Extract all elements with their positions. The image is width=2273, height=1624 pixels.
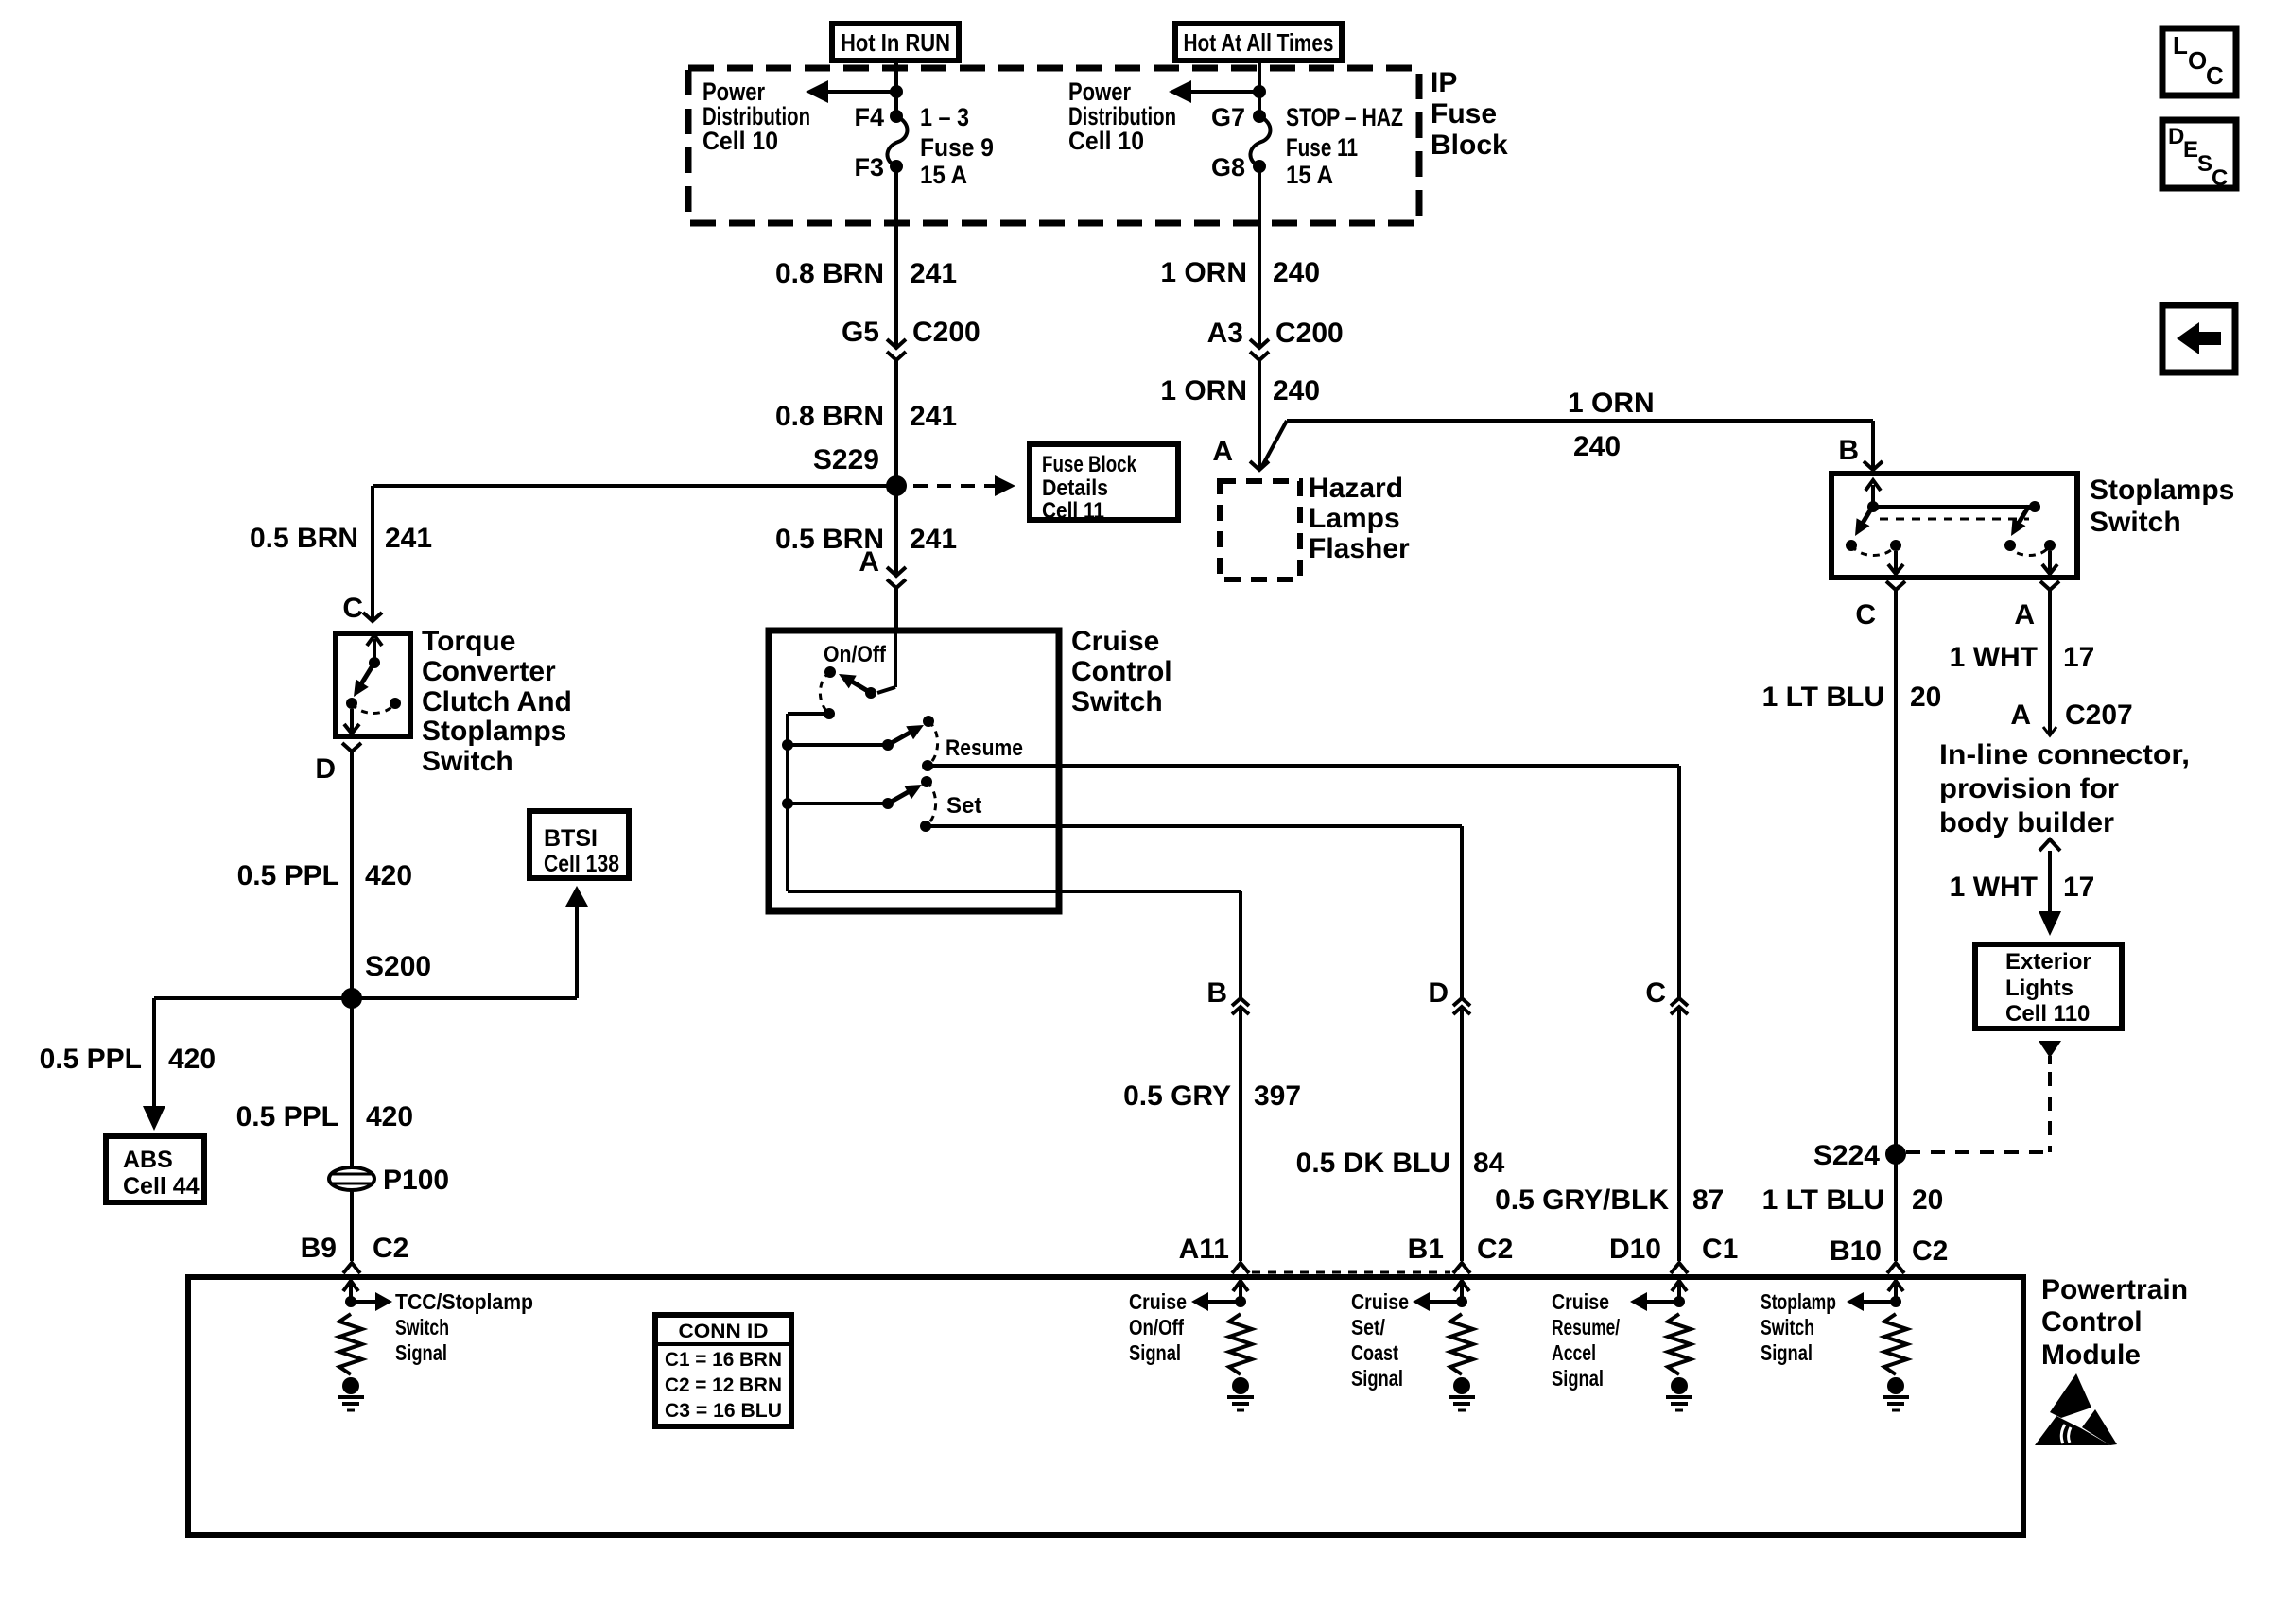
svg-text:C2 = 12 BRN: C2 = 12 BRN: [665, 1374, 782, 1396]
svg-text:Torque: Torque: [422, 626, 515, 657]
svg-text:D: D: [315, 753, 336, 785]
svg-text:C: C: [2206, 61, 2224, 90]
svg-text:Signal: Signal: [1552, 1366, 1604, 1391]
svg-text:S224: S224: [1813, 1140, 1880, 1171]
svg-text:Block: Block: [1431, 130, 1508, 161]
svg-text:241: 241: [910, 258, 957, 289]
svg-text:G5: G5: [842, 317, 879, 348]
svg-text:Signal: Signal: [1129, 1340, 1181, 1365]
svg-text:body builder: body builder: [1939, 807, 2114, 838]
svg-text:C207: C207: [2065, 700, 2133, 731]
svg-text:IP: IP: [1431, 67, 1457, 98]
svg-text:Cell 44: Cell 44: [123, 1173, 200, 1200]
svg-text:Cruise: Cruise: [1351, 1289, 1409, 1314]
svg-text:Exterior: Exterior: [2005, 949, 2091, 975]
svg-text:Switch: Switch: [395, 1315, 449, 1339]
svg-text:D: D: [1428, 977, 1449, 1009]
svg-text:1 ORN: 1 ORN: [1568, 388, 1655, 419]
svg-text:Module: Module: [2041, 1339, 2141, 1371]
svg-text:Lights: Lights: [2005, 976, 2073, 1001]
svg-text:E: E: [2183, 137, 2198, 163]
svg-text:BTSI: BTSI: [544, 825, 598, 852]
svg-text:Converter: Converter: [422, 656, 556, 687]
svg-text:Cell 138: Cell 138: [544, 851, 619, 877]
svg-text:20: 20: [1910, 682, 1941, 713]
svg-text:240: 240: [1573, 431, 1621, 462]
svg-text:Control: Control: [2041, 1306, 2143, 1338]
svg-text:0.5 GRY: 0.5 GRY: [1123, 1080, 1231, 1112]
svg-text:420: 420: [365, 860, 412, 891]
svg-text:C200: C200: [1275, 318, 1344, 349]
svg-text:Resume/: Resume/: [1552, 1315, 1620, 1339]
svg-text:Details: Details: [1042, 475, 1108, 501]
svg-text:1 WHT: 1 WHT: [1950, 642, 2038, 673]
svg-text:Signal: Signal: [1761, 1340, 1813, 1365]
svg-text:B1: B1: [1408, 1234, 1444, 1265]
svg-text:15 A: 15 A: [920, 161, 967, 189]
svg-text:STOP – HAZ: STOP – HAZ: [1286, 103, 1403, 131]
svg-text:17: 17: [2063, 642, 2094, 673]
svg-text:Switch: Switch: [1761, 1315, 1814, 1339]
svg-text:Cell 11: Cell 11: [1042, 498, 1104, 524]
svg-text:A3: A3: [1207, 318, 1243, 349]
svg-text:TCC/Stoplamp: TCC/Stoplamp: [395, 1289, 533, 1314]
svg-text:Stoplamp: Stoplamp: [1761, 1289, 1836, 1314]
svg-text:Stoplamps: Stoplamps: [2090, 475, 2234, 506]
svg-text:S229: S229: [813, 444, 879, 475]
svg-text:17: 17: [2063, 872, 2094, 903]
svg-text:On/Off: On/Off: [1129, 1315, 1184, 1339]
svg-text:On/Off: On/Off: [824, 642, 887, 667]
svg-text:Hot In RUN: Hot In RUN: [841, 28, 950, 57]
svg-text:C200: C200: [912, 317, 980, 348]
svg-text:O: O: [2188, 46, 2207, 75]
svg-text:L: L: [2173, 31, 2188, 60]
svg-text:B: B: [1206, 977, 1227, 1009]
svg-text:G7: G7: [1211, 103, 1245, 131]
svg-text:Fuse Block: Fuse Block: [1042, 452, 1137, 477]
svg-text:1 WHT: 1 WHT: [1950, 872, 2038, 903]
svg-text:Signal: Signal: [1351, 1366, 1403, 1391]
svg-text:Switch: Switch: [422, 746, 513, 777]
svg-text:Cruise: Cruise: [1071, 626, 1159, 657]
svg-text:15 A: 15 A: [1286, 161, 1333, 189]
svg-text:D: D: [2168, 124, 2184, 149]
svg-text:240: 240: [1273, 375, 1320, 406]
svg-text:241: 241: [385, 523, 432, 554]
svg-text:Resume: Resume: [946, 735, 1023, 761]
svg-text:84: 84: [1473, 1148, 1505, 1179]
svg-text:1 ORN: 1 ORN: [1160, 375, 1247, 406]
svg-text:P100: P100: [383, 1165, 449, 1196]
svg-text:Cell 10: Cell 10: [1068, 127, 1144, 155]
svg-text:C: C: [342, 593, 363, 624]
svg-text:0.8 BRN: 0.8 BRN: [775, 401, 884, 432]
svg-text:1 LT BLU: 1 LT BLU: [1762, 682, 1884, 713]
svg-text:Cruise: Cruise: [1129, 1289, 1187, 1314]
svg-text:C2: C2: [1912, 1235, 1948, 1267]
svg-text:0.8 BRN: 0.8 BRN: [775, 258, 884, 289]
svg-text:C3 = 16 BLU: C3 = 16 BLU: [665, 1400, 782, 1422]
svg-text:Control: Control: [1071, 656, 1172, 687]
svg-text:Set/: Set/: [1351, 1315, 1386, 1339]
svg-text:Fuse: Fuse: [1431, 98, 1497, 130]
svg-text:240: 240: [1273, 257, 1320, 288]
svg-text:Switch: Switch: [1071, 686, 1163, 717]
svg-text:Lamps: Lamps: [1309, 503, 1400, 534]
svg-text:1 – 3: 1 – 3: [920, 103, 969, 131]
svg-text:1 LT BLU: 1 LT BLU: [1762, 1184, 1884, 1216]
svg-text:Fuse 11: Fuse 11: [1286, 133, 1358, 162]
svg-text:A: A: [859, 546, 879, 578]
svg-text:0.5 PPL: 0.5 PPL: [237, 860, 339, 891]
svg-text:0.5 PPL: 0.5 PPL: [40, 1044, 142, 1075]
svg-text:87: 87: [1692, 1184, 1724, 1216]
svg-text:C: C: [1855, 599, 1876, 631]
svg-text:A11: A11: [1179, 1234, 1229, 1265]
svg-text:Signal: Signal: [395, 1340, 447, 1365]
svg-text:D10: D10: [1609, 1234, 1661, 1265]
svg-text:Accel: Accel: [1552, 1340, 1596, 1365]
svg-text:Set: Set: [946, 793, 981, 819]
svg-text:G8: G8: [1211, 153, 1245, 181]
svg-text:A: A: [2014, 599, 2035, 631]
svg-text:Cell 110: Cell 110: [2005, 1001, 2090, 1027]
svg-text:A: A: [1212, 436, 1233, 467]
svg-text:Cruise: Cruise: [1552, 1289, 1609, 1314]
svg-text:provision for: provision for: [1939, 773, 2119, 804]
svg-text:420: 420: [168, 1044, 216, 1075]
svg-text:C1: C1: [1702, 1234, 1738, 1265]
svg-text:Coast: Coast: [1351, 1340, 1398, 1365]
svg-text:Stoplamps: Stoplamps: [422, 716, 566, 747]
svg-text:C: C: [1645, 977, 1666, 1009]
svg-text:Powertrain: Powertrain: [2041, 1274, 2188, 1305]
svg-text:Flasher: Flasher: [1309, 533, 1410, 564]
svg-text:0.5 PPL: 0.5 PPL: [236, 1101, 338, 1132]
svg-text:Cell 10: Cell 10: [703, 127, 778, 155]
svg-text:Hazard: Hazard: [1309, 473, 1403, 504]
svg-text:S: S: [2197, 151, 2212, 177]
svg-text:F4: F4: [854, 103, 884, 131]
svg-text:In-line connector,: In-line connector,: [1939, 739, 2190, 770]
svg-text:C1 = 16 BRN: C1 = 16 BRN: [665, 1349, 782, 1371]
svg-text:20: 20: [1912, 1184, 1943, 1216]
svg-text:C2: C2: [1477, 1234, 1513, 1265]
svg-text:Hot At All Times: Hot At All Times: [1184, 28, 1334, 57]
svg-text:397: 397: [1254, 1080, 1301, 1112]
svg-text:F3: F3: [854, 153, 884, 181]
svg-text:241: 241: [910, 401, 957, 432]
svg-text:Fuse 9: Fuse 9: [920, 133, 994, 162]
svg-text:B9: B9: [301, 1233, 337, 1264]
svg-text:0.5 GRY/BLK: 0.5 GRY/BLK: [1495, 1184, 1669, 1216]
svg-text:B: B: [1838, 435, 1859, 466]
svg-text:1 ORN: 1 ORN: [1160, 257, 1247, 288]
svg-text:0.5 BRN: 0.5 BRN: [250, 523, 358, 554]
svg-text:C2: C2: [373, 1233, 408, 1264]
svg-text:241: 241: [910, 524, 957, 555]
svg-text:C: C: [2212, 165, 2228, 191]
svg-text:Clutch And: Clutch And: [422, 686, 572, 717]
svg-text:ABS: ABS: [123, 1147, 173, 1173]
svg-text:S200: S200: [365, 951, 431, 982]
svg-text:B10: B10: [1830, 1235, 1882, 1267]
svg-text:CONN ID: CONN ID: [679, 1321, 769, 1342]
svg-text:Switch: Switch: [2090, 507, 2181, 538]
svg-text:A: A: [2010, 700, 2031, 731]
svg-text:0.5 DK BLU: 0.5 DK BLU: [1296, 1148, 1450, 1179]
svg-text:420: 420: [366, 1101, 413, 1132]
